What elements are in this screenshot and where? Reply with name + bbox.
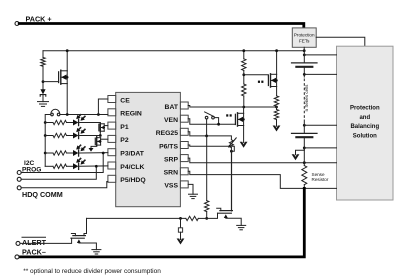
svg-text:Protection: Protection: [294, 32, 315, 37]
wire cell2 tap to box: [304, 147, 336, 149]
wire dashed n-cells: [303, 79, 305, 120]
wire VSS to ground: [188, 184, 193, 194]
terminal HDQ: [17, 186, 21, 190]
wire gate M3: [244, 75, 269, 76]
jumper J1: [57, 113, 60, 116]
wire LED row1 to M_A: [80, 123, 101, 124]
pin P4/CLK: [108, 162, 116, 169]
resistor R1 divider: [242, 59, 246, 71]
wire PACK+ thick rail: [19, 24, 304, 29]
wire rail to M3 drain: [276, 51, 278, 75]
transistor M_B (LED chain, P2): [94, 138, 96, 145]
svg-text:Protection: Protection: [350, 106, 380, 112]
wire cell2 tap to box: [304, 124, 336, 126]
resistor R2 divider: [242, 84, 246, 96]
wire gate M1: [43, 81, 59, 83]
wire LED row3 to P3/DAT: [80, 152, 108, 154]
resistor LED row 1: [44, 121, 47, 124]
wire rail to R divider left: [42, 51, 44, 58]
pin P6/TS: [180, 142, 188, 149]
pin REGIN: [108, 109, 116, 116]
pin REG25: [180, 128, 188, 135]
transistor M4: [220, 210, 233, 212]
svg-text:PACK–: PACK–: [22, 248, 46, 257]
wire R1 to R2: [243, 71, 245, 85]
label ALERT (overline): [22, 236, 46, 238]
node divider left: [179, 217, 182, 220]
pin VEN: [180, 115, 188, 122]
svg-text:BAT: BAT: [165, 104, 179, 111]
wire PACK- thick: [19, 188, 304, 257]
marker ** M3: [258, 81, 260, 83]
node rail/battery: [303, 49, 306, 52]
wire HDQ to P5: [21, 182, 108, 188]
LED D4: [73, 150, 78, 156]
wire REG25 column down: [206, 136, 208, 201]
svg-text:** optional to reduce divider: ** optional to reduce divider power cons…: [23, 268, 161, 275]
svg-text:P2: P2: [120, 137, 129, 144]
node M1 source tap: [66, 113, 69, 116]
LED D2: [73, 120, 78, 126]
wire jumper to LED bus: [45, 115, 51, 167]
Protection FETs box: [292, 28, 316, 47]
svg-text:Balancing: Balancing: [350, 124, 379, 130]
svg-text:ALERT: ALERT: [22, 238, 47, 247]
LED D5: [73, 163, 78, 169]
wire ALERT to M5 gate: [20, 238, 72, 243]
LED D3: [73, 133, 78, 139]
wire RA to BAT net: [276, 106, 278, 109]
terminal PACK-: [15, 255, 19, 259]
terminal I2C-2: [17, 177, 21, 181]
wire VEN net: [188, 119, 235, 125]
wire P6/TS net: [188, 145, 234, 151]
wire switch right leg to VEN: [214, 118, 218, 125]
resistor RB: [274, 110, 278, 120]
svg-text:P5/HDQ: P5/HDQ: [120, 177, 145, 184]
wire RB to arrow: [276, 120, 278, 127]
wire M1 drain to rail: [66, 51, 68, 71]
wire divider to M4 gate: [207, 213, 218, 218]
wire M_B top to row2: [96, 136, 98, 138]
wire SRN net: [188, 171, 304, 188]
pin VSS: [180, 181, 188, 188]
wire: [42, 66, 44, 89]
node divider mid: [205, 217, 208, 220]
wire M_B source arrow: [91, 146, 97, 149]
svg-text:SRN: SRN: [164, 170, 178, 177]
pin SRP: [180, 155, 188, 162]
wire divider row: [87, 217, 186, 219]
svg-text:HDQ COMM: HDQ COMM: [22, 190, 63, 199]
svg-text:P4/CLK: P4/CLK: [120, 164, 144, 171]
node TS: [230, 150, 233, 153]
ground left divider: [38, 101, 49, 103]
node PACK-: [303, 187, 306, 190]
wire LED row4 to P4/CLK: [80, 165, 108, 167]
transistor M1: [58, 72, 60, 83]
transistor M_A (LED chain, P1): [98, 124, 100, 131]
wire M2 drain to BAT junction: [243, 107, 245, 113]
wire rail to cell1: [303, 51, 305, 63]
wire M_A source to row2: [99, 132, 101, 136]
resistor R_div1: [205, 201, 209, 212]
IC chip bq34z100 body: [116, 92, 181, 206]
Protection and Balancing Solution box: [337, 46, 394, 200]
wire TS node down to M4: [230, 151, 232, 211]
wire REGIN net: [60, 114, 108, 116]
svg-text:VSS: VSS: [164, 183, 178, 190]
svg-text:VEN: VEN: [164, 117, 178, 124]
wire BAT net: [188, 106, 276, 108]
wire zener to ground: [42, 95, 44, 102]
svg-text:P6/TS: P6/TS: [159, 143, 178, 150]
pin CE: [108, 96, 116, 103]
transistor M3: [267, 75, 269, 85]
transistor M2: [234, 114, 236, 124]
wire M_B to P2 pin: [101, 138, 108, 140]
node cell1 bottom: [303, 73, 306, 76]
node cell2 top: [303, 124, 306, 127]
svg-text:P3/DAT: P3/DAT: [120, 151, 145, 158]
pin SRN: [180, 168, 188, 175]
resistor LED row 3: [44, 152, 47, 155]
terminal PACK+: [15, 22, 19, 26]
pin P3/DAT: [108, 149, 116, 156]
wire M2 source to arrow: [243, 126, 245, 143]
svg-text:Solution: Solution: [353, 133, 377, 139]
resistor LED row 2: [44, 134, 47, 137]
wire REG25 net: [188, 132, 231, 140]
wire FETs box to battery rail: [303, 47, 305, 50]
resistor R_sense: [303, 163, 305, 166]
resistor left divider: [41, 58, 45, 67]
terminal I2C-1: [17, 171, 21, 175]
node CE tap: [97, 113, 100, 116]
wire PACK- arrow stub: [296, 148, 305, 155]
ground VSS: [189, 193, 198, 195]
wire FETs box to Protection box: [316, 37, 365, 46]
wire top rail BAT+: [43, 50, 304, 52]
resistor R_div2 (horizontal): [186, 216, 199, 220]
wire battery tap top to box: [304, 54, 336, 56]
battery cell 1: [292, 62, 318, 64]
wire switch left leg to REG25: [206, 119, 208, 136]
ground M4: [237, 224, 246, 226]
wire I2C-2 to row4: [21, 166, 96, 179]
zener diode D1: [40, 89, 45, 94]
wire rail to R1: [243, 51, 245, 59]
svg-text:and: and: [359, 115, 370, 121]
wire M1 source to REGIN net: [66, 84, 68, 115]
pin BAT: [180, 102, 188, 109]
wire PACK- node to box: [304, 187, 336, 189]
terminal ALERT: [16, 241, 20, 245]
wire R2 to BAT junction: [243, 96, 245, 107]
wire LED row2: [80, 135, 101, 137]
resistor LED row 4: [45, 165, 53, 167]
wire cell1 tap to box: [304, 73, 336, 75]
thermistor RT: [229, 140, 233, 148]
wire M_A gate... drain to P1 pin: [104, 125, 108, 127]
svg-text:SRP: SRP: [164, 156, 178, 163]
wire CE to REGIN: [98, 99, 108, 115]
ground M5: [92, 249, 101, 251]
pin P1: [108, 122, 116, 129]
svg-text:n Series cells: n Series cells: [304, 84, 309, 112]
svg-text:P1: P1: [120, 124, 129, 131]
svg-text:CE: CE: [120, 97, 130, 104]
pin P2: [108, 135, 116, 142]
wire SRP net: [188, 158, 336, 163]
node battery tap top: [303, 54, 306, 57]
svg-text:FETs: FETs: [299, 39, 310, 44]
pin P5/HDQ: [108, 175, 116, 182]
switch S1: [205, 116, 208, 119]
marker ** M2: [226, 114, 228, 116]
battery cell 2: [292, 132, 318, 134]
wire I2C-1 to row3: [21, 153, 103, 173]
transistor M5: [73, 235, 86, 237]
svg-text:REGIN: REGIN: [120, 111, 142, 118]
node cell2 bottom: [303, 147, 306, 150]
svg-text:Resistor: Resistor: [312, 177, 329, 182]
node gate M1: [42, 80, 45, 83]
node M1 drain rail: [66, 49, 69, 52]
capacitor/fuse square: [180, 218, 182, 227]
svg-text:REG25: REG25: [156, 130, 179, 137]
wire M3 source to RA: [276, 87, 278, 96]
resistor RA: [274, 96, 278, 107]
